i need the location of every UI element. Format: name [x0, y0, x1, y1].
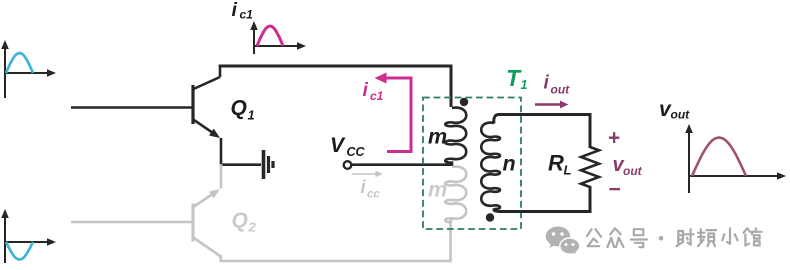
wire bottom rail Q2 to transformer (gray) — [219, 219, 452, 261]
wire secondary top to load — [494, 115, 590, 149]
svg-text:out: out — [671, 108, 691, 122]
current arrow i_cc (gray) — [352, 171, 383, 177]
polarity dot primary — [460, 98, 468, 106]
current arrow i_out (purple) — [535, 101, 569, 109]
label i_out (purple) — [544, 73, 571, 97]
vout waveform half-sine (dark purple) — [692, 138, 746, 177]
svg-text:out: out — [551, 83, 571, 97]
wire secondary bottom to load — [494, 186, 590, 212]
svg-text:CC: CC — [347, 145, 366, 159]
svg-text:V: V — [330, 134, 346, 157]
svg-text:i: i — [232, 0, 238, 21]
vout plot axes (right) — [685, 124, 786, 193]
svg-text:L: L — [564, 163, 572, 178]
label v_out (black, right plot) — [659, 98, 690, 122]
svg-text:i: i — [361, 177, 367, 197]
ic1 waveform half-sine (magenta) — [257, 26, 283, 46]
label i_cc (gray) — [361, 177, 381, 201]
watermark text gongzhonghao shepin xiaoguan (vector strokes) — [587, 228, 762, 247]
label Q2 (gray) — [232, 209, 257, 235]
wire Q2 base (gray) — [71, 221, 192, 224]
svg-text:Q: Q — [232, 209, 248, 232]
svg-text:R: R — [548, 151, 564, 176]
transformer boundary T1 (green dashed box) — [423, 98, 521, 230]
wire Q1 base — [71, 106, 192, 109]
svg-text:i: i — [544, 73, 550, 94]
ic1 plot axes (top) — [250, 21, 306, 54]
resistor R_L — [581, 147, 599, 187]
ground symbol — [264, 150, 274, 179]
terminal circle V_CC — [344, 161, 352, 169]
wire top rail collector to transformer — [219, 66, 451, 107]
svg-text:Q: Q — [231, 97, 247, 120]
svg-text:−: − — [609, 178, 621, 201]
transistor Q1 — [193, 65, 221, 166]
svg-text:1: 1 — [521, 78, 528, 92]
label R_L — [548, 151, 572, 178]
primary winding m upper (black) — [445, 108, 466, 165]
svg-text:cc: cc — [367, 189, 380, 201]
svg-text:1: 1 — [248, 108, 255, 123]
label i_c1 (magenta) — [363, 79, 384, 103]
input plot axes bottom-left — [1, 209, 56, 263]
label V_CC — [330, 134, 366, 159]
transistor Q2 (gray) — [193, 189, 221, 260]
input waveform positive half-sine (cyan) — [6, 53, 33, 73]
label Q1 — [231, 97, 255, 123]
svg-text:2: 2 — [248, 220, 257, 235]
label v_out (purple) — [613, 154, 643, 178]
svg-text:m: m — [428, 178, 447, 202]
svg-text:c1: c1 — [240, 8, 254, 22]
wire junction down to Q2 (gray) — [220, 164, 223, 189]
watermark wechat icon — [546, 226, 580, 255]
label i_c1 (black, top plot) — [232, 0, 254, 22]
svg-text:i: i — [363, 79, 369, 101]
input plot axes top-left — [1, 40, 56, 98]
polarity dot secondary — [486, 213, 494, 221]
label T1 (green) — [506, 65, 528, 92]
svg-text:+: + — [608, 127, 620, 150]
svg-text:c1: c1 — [370, 89, 384, 103]
input waveform negative half-sine (cyan) — [6, 242, 33, 260]
wire V_CC to transformer center tap — [352, 163, 454, 166]
svg-text:m: m — [428, 125, 447, 149]
svg-text:out: out — [623, 164, 643, 178]
wire emitter junction to ground — [220, 163, 261, 166]
svg-text:n: n — [503, 152, 516, 176]
primary winding m lower (gray) — [445, 167, 466, 223]
secondary winding n — [481, 123, 500, 209]
current indicator i_c1 (magenta bracket) — [375, 73, 413, 152]
